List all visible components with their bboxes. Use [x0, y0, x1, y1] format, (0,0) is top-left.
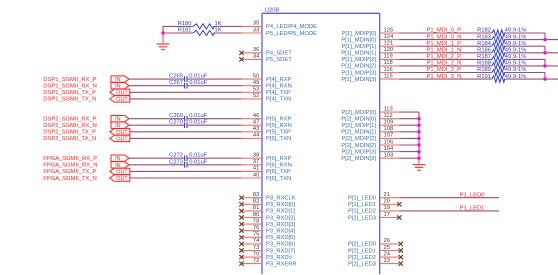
port IN FPGA_SGMII_RX_P: [111, 155, 129, 162]
wire R181 to pin 33: [213, 32, 242, 34]
pin 83 stub: [242, 192, 263, 198]
pin name P3_RXD[1]: [266, 209, 295, 215]
capacitor C272 0.01uF: [169, 153, 208, 161]
net label P1_LED0: [460, 192, 485, 198]
port IN FPGA_SGMII_RX_N: [111, 162, 129, 169]
pin 50 stub: [242, 73, 263, 79]
wire OUT port to chip: [130, 131, 242, 133]
pin name P[2]_LED0: [348, 242, 376, 248]
svg-text:112: 112: [384, 113, 393, 119]
svg-text:OUT: OUT: [116, 136, 128, 142]
pin 25 stub: [380, 245, 400, 251]
capacitor C269 0.01uF: [169, 113, 208, 121]
pin name P[2]_MDIP[0]: [342, 110, 377, 116]
svg-text:R186: R186: [477, 48, 491, 54]
net label P1_MDI_0_N: [427, 34, 462, 40]
junction dot at R181 left lead: [161, 31, 164, 34]
svg-text:108: 108: [384, 126, 394, 132]
wire P1_MDI_2_P to termination corner: [504, 59, 545, 66]
junction dot P2 bus: [417, 157, 420, 160]
pin 74 stub: [242, 238, 263, 244]
wire capacitor C269 to chip: [187, 118, 242, 120]
pin name P[2]_MDIP[2]: [342, 136, 377, 142]
junction dot termination pair: [543, 38, 546, 41]
pin 35 stub: [242, 21, 263, 27]
pin name P3_RXCLK: [266, 196, 296, 202]
wire port to capacitor C270: [129, 124, 185, 126]
pin name P[2]_MDIN[3]: [341, 156, 376, 162]
net label DSP1_SGMII_RX_P: [43, 77, 96, 83]
svg-text:83: 83: [253, 192, 259, 198]
resistor R189 49.9-1%: [477, 67, 526, 76]
op-amp-like IC body U20B outline: [262, 13, 380, 274]
wire OUT port to chip: [130, 98, 242, 100]
pin 41 stub: [242, 166, 263, 172]
no-connect X pin 26: [399, 242, 403, 246]
pin 46 stub: [242, 113, 263, 119]
junction dot P2 bus: [417, 117, 420, 120]
pin name P3_RXDV: [266, 255, 293, 261]
pin name P[2]_LED1: [348, 248, 376, 254]
svg-text:FPGA_SGMII_TX_N: FPGA_SGMII_TX_N: [43, 176, 96, 182]
resistor R182 49.9-1%: [477, 28, 526, 37]
no-connect X (left pin row 80): [239, 215, 243, 219]
pin 103 stub: [380, 153, 400, 159]
svg-text:37: 37: [253, 159, 259, 165]
svg-text:120: 120: [384, 47, 394, 53]
svg-text:P3_RXD[7]: P3_RXD[7]: [266, 248, 295, 254]
svg-text:P[1]_MDIP[1]: P[1]_MDIP[1]: [342, 44, 377, 50]
svg-text:P[1]_MDIP[0]: P[1]_MDIP[0]: [342, 31, 377, 37]
svg-text:R187: R187: [477, 54, 491, 60]
pin name P[1]_MDIP[0]: [342, 31, 377, 37]
pin name P3_RXD[4]: [266, 229, 295, 235]
pin 124 stub: [380, 34, 400, 40]
svg-text:DSP2_SGMII_RX_P: DSP2_SGMII_RX_P: [43, 117, 96, 123]
wire pin to resistor R189: [400, 72, 492, 74]
svg-text:82: 82: [253, 199, 259, 205]
junction dot P2 bus: [417, 137, 420, 140]
svg-text:106: 106: [384, 139, 394, 145]
svg-text:P[5]_TXP: P[5]_TXP: [266, 130, 291, 136]
pin 104 stub: [380, 146, 400, 152]
svg-text:125: 125: [384, 27, 394, 33]
svg-text:FPGA_SGMII_RX_P: FPGA_SGMII_RX_P: [43, 156, 97, 162]
resistor R184 49.9-1%: [477, 41, 526, 50]
svg-text:R183: R183: [477, 34, 491, 40]
pin 53 stub: [242, 87, 263, 93]
svg-text:P[2]_LED0: P[2]_LED0: [348, 242, 376, 248]
no-connect X (left pin row 81): [239, 209, 243, 213]
wire OUT port to chip: [130, 91, 242, 93]
pin 40 stub: [242, 172, 263, 178]
net label FPGA_SGMII_RX_P: [43, 156, 97, 162]
pin 17 stub: [380, 212, 400, 218]
net label DSP2_SGMII_RX_P: [43, 117, 96, 123]
pin name P3_RXERR: [266, 261, 297, 267]
port OUT DSP2_SGMII_TX_P: [110, 129, 130, 136]
refdes U20B: [265, 8, 280, 14]
svg-text:FPGA_SGMII_TX_P: FPGA_SGMII_TX_P: [43, 169, 96, 175]
pin 73 stub: [242, 245, 263, 251]
svg-text:P[4]_TXN: P[4]_TXN: [266, 97, 291, 103]
no-connect X (left pin row 83): [239, 196, 243, 200]
no-connect X (left pin row 78): [239, 222, 243, 226]
wire R180 to pin 35: [213, 25, 242, 27]
pin name P[1]_LED0: [348, 196, 376, 202]
svg-text:43: 43: [253, 126, 259, 132]
wire port to capacitor C265: [129, 78, 185, 80]
svg-text:P[6]_RXP: P[6]_RXP: [266, 156, 292, 162]
no-connect X (left pin row 75): [239, 235, 243, 239]
port IN DSP1_SGMII_RX_P: [111, 76, 129, 83]
svg-text:P3_RXD[2]: P3_RXD[2]: [266, 215, 295, 221]
net label DSP1_SGMII_TX_N: [43, 97, 96, 103]
svg-text:R181: R181: [178, 28, 192, 34]
pin name P5_SDET: [266, 57, 292, 63]
resistor R183 49.9-1%: [477, 34, 526, 43]
wire port to capacitor C272: [129, 157, 185, 159]
svg-text:P[1]_MDIN[2]: P[1]_MDIN[2]: [341, 64, 376, 70]
pin name P[6]_RXP: [266, 156, 292, 162]
wire P2 MDI pin to bus: [400, 151, 420, 153]
pin 113 stub: [380, 106, 400, 112]
wire pin to resistor R187: [400, 58, 492, 60]
wire OUT port to chip: [130, 137, 242, 139]
wire P2 bus to ground: [418, 158, 420, 164]
wire P1_MDI_1_P to termination corner: [504, 46, 545, 53]
svg-text:DSP1_SGMII_RX_P: DSP1_SGMII_RX_P: [43, 77, 96, 83]
svg-text:P1_MDI_3_N: P1_MDI_3_N: [427, 74, 462, 80]
svg-text:121: 121: [384, 41, 394, 47]
svg-text:P[2]_MDIN[1]: P[2]_MDIN[1]: [341, 130, 376, 136]
svg-text:116: 116: [384, 67, 393, 73]
no-connect X (left pin row 70): [239, 255, 243, 259]
pin 21 stub: [380, 192, 400, 198]
net label P1_LED1: [460, 206, 485, 212]
no-connect X (left pin row 34): [239, 57, 243, 61]
svg-text:P[1]_MDIN[0]: P[1]_MDIN[0]: [341, 37, 376, 43]
port IN DSP1_SGMII_RX_N: [111, 83, 129, 90]
resistor R191 49.9-1%: [477, 74, 526, 83]
svg-text:P[5]_RXP: P[5]_RXP: [266, 117, 292, 123]
svg-text:R189: R189: [477, 67, 491, 73]
svg-text:P3_RXD[5]: P3_RXD[5]: [266, 235, 295, 241]
svg-text:DSP2_SGMII_RX_N: DSP2_SGMII_RX_N: [43, 123, 96, 129]
svg-text:35: 35: [253, 21, 259, 27]
svg-text:P3_RXDV: P3_RXDV: [266, 255, 293, 261]
pin 125 stub: [380, 27, 400, 33]
pin 20 stub: [380, 199, 400, 205]
svg-text:DSP2_SGMII_TX_N: DSP2_SGMII_TX_N: [43, 136, 96, 142]
net label P1_MDI_2_N: [427, 61, 462, 67]
net label DSP2_SGMII_TX_P: [43, 130, 96, 136]
resistor R180 1K: [163, 21, 222, 29]
pin 24 stub: [380, 251, 400, 257]
pin name P3_RXD[6]: [266, 242, 295, 248]
pin 23 stub: [380, 258, 400, 264]
wire P1_MDI_0_N to right edge: [504, 39, 558, 41]
pin name P[4]_RXP: [266, 77, 292, 83]
wire P2 MDI pin to bus: [400, 124, 420, 126]
wire P1_MDI_1_N to right edge: [504, 52, 558, 54]
pin name P3_RXD[0]: [266, 202, 295, 208]
svg-text:P[1]_LED0: P[1]_LED0: [348, 196, 376, 202]
resistor R188 49.9-1%: [477, 61, 526, 70]
ground (P2 MDI termination): [413, 165, 426, 171]
net label FPGA_SGMII_TX_N: [43, 176, 96, 182]
resistor R186 49.9-1%: [477, 48, 526, 57]
svg-text:80: 80: [253, 212, 259, 218]
pin name P[2]_MDIP[3]: [342, 149, 377, 155]
pin name P[5]_TXN: [266, 136, 291, 142]
pin name P[5]_RXN: [266, 123, 292, 129]
net label P1_MDI_0_P: [427, 28, 462, 34]
pin 37 stub: [242, 159, 263, 165]
wire port to capacitor C269: [129, 118, 185, 120]
pin name P[1]_MDIP[2]: [342, 57, 377, 63]
svg-text:P[2]_LED2: P[2]_LED2: [348, 255, 376, 261]
pin 107 stub: [380, 133, 400, 139]
svg-text:U20B: U20B: [265, 8, 280, 14]
pin 108 stub: [380, 126, 400, 132]
svg-text:P[2]_MDIN[3]: P[2]_MDIN[3]: [341, 156, 376, 162]
svg-text:119: 119: [384, 54, 393, 60]
pin 120 stub: [380, 47, 400, 53]
svg-text:73: 73: [253, 245, 259, 251]
svg-text:R182: R182: [477, 28, 491, 34]
svg-text:38: 38: [253, 153, 259, 159]
svg-text:24: 24: [384, 251, 391, 257]
pin name P[2]_MDIN[1]: [341, 130, 376, 136]
capacitor C270 0.01uF: [169, 120, 208, 128]
wire OUT port to chip: [130, 170, 242, 172]
svg-text:P1_MDI_0_N: P1_MDI_0_N: [427, 34, 462, 40]
svg-text:49: 49: [253, 80, 259, 86]
port IN DSP2_SGMII_RX_P: [111, 116, 129, 123]
svg-text:P[6]_TXP: P[6]_TXP: [266, 169, 291, 175]
no-connect X pin 25: [399, 248, 403, 252]
resistor R187 49.9-1%: [477, 54, 526, 63]
wire P1_MDI_0_P to termination corner: [504, 33, 545, 40]
no-connect X (left pin row 74): [239, 242, 243, 246]
pin name P3_RXD[5]: [266, 235, 295, 241]
no-connect X pin 17: [397, 215, 401, 219]
svg-text:P1_MDI_2_P: P1_MDI_2_P: [427, 54, 462, 60]
svg-text:53: 53: [253, 87, 259, 93]
svg-text:P5_SDET: P5_SDET: [266, 57, 292, 63]
svg-text:P3_RXD[6]: P3_RXD[6]: [266, 242, 295, 248]
capacitor C273 0.01uF: [169, 159, 208, 167]
pin name P[2]_MDIN[2]: [341, 143, 376, 149]
svg-text:OUT: OUT: [116, 97, 128, 103]
svg-text:34: 34: [253, 54, 260, 60]
svg-text:P1_LED0: P1_LED0: [460, 192, 485, 198]
wire P2 MDI pin to bus: [400, 118, 420, 120]
no-connect X (left pin row 36): [239, 51, 243, 55]
capacitor C265 0.01uF: [169, 74, 208, 82]
svg-text:25: 25: [384, 245, 390, 251]
pin 70 stub: [242, 251, 263, 257]
pin 38 stub: [242, 153, 263, 159]
svg-text:113: 113: [384, 106, 393, 112]
svg-text:P[1]_LED2: P[1]_LED2: [348, 209, 376, 215]
pin 44 stub: [242, 133, 263, 139]
svg-text:C269: C269: [169, 113, 183, 119]
wire vertical from R180/R181 left leads to ground: [162, 26, 164, 33]
wire capacitor C273 to chip: [187, 164, 242, 166]
pin name P[4]_TXN: [266, 97, 291, 103]
svg-text:P[5]_RXN: P[5]_RXN: [266, 123, 292, 129]
no-connect X pin 23: [399, 261, 403, 265]
wire net P1_LED0: [400, 197, 500, 199]
svg-text:P[2]_MDIP[1]: P[2]_MDIP[1]: [342, 123, 377, 129]
svg-text:C273: C273: [169, 159, 183, 165]
wire P1_MDI_3_P to termination corner: [504, 73, 545, 80]
net label DSP1_SGMII_RX_N: [43, 84, 96, 90]
pin name P[1]_LED2: [348, 209, 376, 215]
pin 34 stub: [242, 54, 263, 60]
svg-text:P4_LED/P4_MODE: P4_LED/P4_MODE: [266, 24, 317, 30]
wire capacitor C267 to chip: [187, 85, 242, 87]
pin 106 stub: [380, 139, 400, 145]
svg-text:P[2]_MDIP[2]: P[2]_MDIP[2]: [342, 136, 377, 142]
svg-text:R188: R188: [477, 61, 491, 67]
pin name P[6]_RXN: [266, 163, 292, 169]
svg-text:P[2]_MDIP[0]: P[2]_MDIP[0]: [342, 110, 377, 116]
svg-text:21: 21: [384, 192, 390, 198]
wire pin to resistor R186: [400, 52, 492, 54]
junction dot P2 bus: [417, 124, 420, 127]
wire port to capacitor C267: [129, 85, 185, 87]
svg-text:118: 118: [384, 60, 393, 66]
pin name P[1]_MDIP[3]: [342, 70, 377, 76]
pin 119 stub: [380, 54, 400, 60]
svg-text:52: 52: [253, 93, 259, 99]
svg-text:75: 75: [253, 232, 259, 238]
svg-text:70: 70: [253, 251, 259, 257]
svg-text:81: 81: [253, 205, 259, 211]
wire port to capacitor C273: [129, 164, 185, 166]
wire pin to resistor R188: [400, 65, 492, 67]
pin 76 stub: [242, 225, 263, 231]
junction dot P2 bus: [417, 130, 420, 133]
svg-text:P3_RXD[3]: P3_RXD[3]: [266, 222, 295, 228]
svg-text:P[2]_MDIN[2]: P[2]_MDIN[2]: [341, 143, 376, 149]
svg-text:C267: C267: [169, 80, 183, 86]
svg-text:50: 50: [253, 73, 259, 79]
svg-text:P1_MDI_0_P: P1_MDI_0_P: [427, 28, 462, 34]
wire P1_MDI_2_N to right edge: [504, 65, 558, 67]
pin name P[4]_RXN: [266, 84, 292, 90]
net label P1_MDI_2_P: [427, 54, 462, 60]
port OUT DSP1_SGMII_TX_N: [110, 96, 130, 103]
svg-text:P3_RXERR: P3_RXERR: [266, 261, 297, 267]
no-connect X (left pin row 76): [239, 229, 243, 233]
svg-text:P1_MDI_3_P: P1_MDI_3_P: [427, 67, 462, 73]
svg-text:41: 41: [253, 166, 259, 172]
wire P2 MDI pin to bus: [400, 144, 420, 146]
port OUT DSP1_SGMII_TX_P: [110, 89, 130, 96]
svg-text:115: 115: [384, 73, 393, 79]
pin 26 stub: [380, 238, 400, 244]
pin name P[1]_LED3: [348, 215, 376, 221]
wire OUT port to chip: [130, 177, 242, 179]
pin name P4_SDET: [266, 51, 292, 57]
svg-text:76: 76: [253, 225, 259, 231]
svg-text:104: 104: [384, 146, 394, 152]
svg-text:P[2]_LED1: P[2]_LED1: [348, 248, 376, 254]
svg-text:P[4]_TXP: P[4]_TXP: [266, 90, 291, 96]
svg-text:P[4]_RXN: P[4]_RXN: [266, 84, 292, 90]
net label FPGA_SGMII_TX_P: [43, 169, 96, 175]
wire P2 MDI pin to bus: [400, 111, 420, 113]
wire pin to resistor R182: [400, 32, 492, 34]
svg-text:P[6]_TXN: P[6]_TXN: [266, 176, 291, 182]
pin name P[2]_MDIN[0]: [341, 117, 376, 123]
wire P2 MDI pin to bus: [400, 157, 420, 159]
pin name P[1]_MDIP[1]: [342, 44, 377, 50]
pin 19 stub: [380, 205, 400, 211]
svg-text:23: 23: [384, 258, 390, 264]
pin 112 stub: [380, 113, 400, 119]
wire P2 MDI pin to bus: [400, 137, 420, 139]
pin name P5_LED/P5_MODE: [266, 31, 317, 37]
svg-text:P[1]_LED1: P[1]_LED1: [348, 202, 376, 208]
pin name P[5]_RXP: [266, 117, 292, 123]
svg-text:P[2]_MDIP[3]: P[2]_MDIP[3]: [342, 149, 377, 155]
svg-text:46: 46: [253, 113, 259, 119]
wire junction to ground stem: [162, 33, 164, 44]
svg-text:26: 26: [384, 238, 390, 244]
net label FPGA_SGMII_RX_N: [43, 163, 97, 169]
port OUT FPGA_SGMII_TX_P: [110, 168, 130, 175]
pin name P3_RXD[7]: [266, 248, 295, 254]
net label P1_MDI_3_P: [427, 67, 462, 73]
svg-text:DSP2_SGMII_TX_P: DSP2_SGMII_TX_P: [43, 130, 96, 136]
pin name P[1]_MDIN[1]: [341, 51, 376, 57]
pin name P[1]_MDIN[3]: [341, 77, 376, 83]
no-connect X (left pin row 73): [239, 248, 243, 252]
pin name P[2]_LED3: [348, 261, 376, 267]
junction dot P2 bus: [417, 150, 420, 153]
pin 109 stub: [380, 120, 400, 126]
svg-text:P3_RXD[4]: P3_RXD[4]: [266, 229, 295, 235]
junction dot P2 bus: [417, 143, 420, 146]
wire P2 MDI pin to bus: [400, 131, 420, 133]
pin name P[1]_MDIN[2]: [341, 64, 376, 70]
port IN DSP2_SGMII_RX_N: [111, 122, 129, 129]
pin name P4_LED/P4_MODE: [266, 24, 317, 30]
no-connect X (left pin row 72): [239, 261, 243, 265]
capacitor C267 0.01uF: [169, 80, 208, 88]
junction dot termination pair: [543, 77, 546, 80]
wire P1_MDI_3_N to right edge: [504, 78, 558, 80]
wire capacitor C270 to chip: [187, 124, 242, 126]
pin name P[5]_TXP: [266, 130, 291, 136]
wire pin to resistor R191: [400, 78, 492, 80]
junction dot termination pair: [543, 51, 546, 54]
pin name P[1]_MDIN[0]: [341, 37, 376, 43]
svg-text:P[2]_LED3: P[2]_LED3: [348, 261, 376, 267]
net label P1_MDI_1_P: [427, 41, 462, 47]
wire net P1_LED1: [400, 210, 500, 212]
svg-text:C265: C265: [169, 74, 183, 80]
svg-text:72: 72: [253, 258, 259, 264]
wire pin to resistor R184: [400, 45, 492, 47]
svg-text:C270: C270: [169, 120, 183, 126]
pin name P[2]_LED2: [348, 255, 376, 261]
